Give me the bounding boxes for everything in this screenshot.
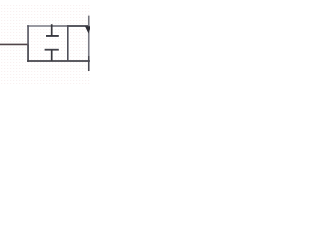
wire top edge middle segment [51, 25, 67, 27]
capacitor C1 top lead [51, 24, 53, 36]
wire top edge right segment [67, 25, 90, 27]
wire middle branch [67, 25, 69, 61]
capacitor C1 top plate [46, 35, 59, 37]
arrowhead on right branch [85, 26, 91, 33]
wire right branch lower [88, 56, 90, 71]
wire left edge [27, 25, 29, 45]
capacitor C1 bottom lead [51, 50, 53, 61]
capacitor C1 bottom plate [45, 49, 59, 51]
wire bottom edge [27, 60, 90, 62]
wire left edge lower [27, 45, 29, 62]
wire right branch upper [88, 16, 90, 26]
wire right branch middle [88, 26, 90, 56]
wire top edge left segment [27, 25, 51, 27]
wire left lead [0, 43, 29, 45]
